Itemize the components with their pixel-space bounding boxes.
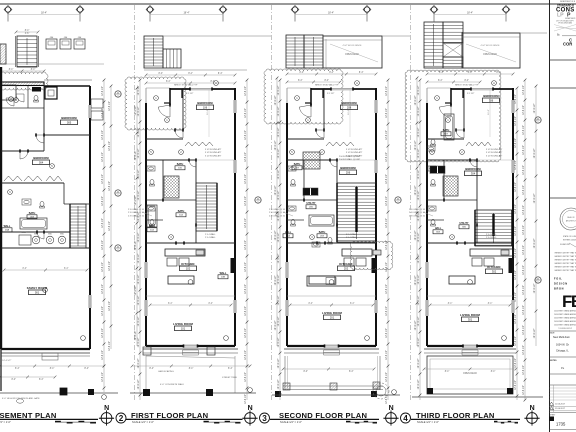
svg-text:12'-4 1/2": 12'-4 1/2" xyxy=(415,275,417,285)
svg-text:8'-4": 8'-4" xyxy=(50,368,55,370)
svg-text:12'-4 1/2": 12'-4 1/2" xyxy=(275,140,277,150)
svg-text:2 X 4 WALL: 2 X 4 WALL xyxy=(486,236,497,239)
svg-text:12'-4 1/2": 12'-4 1/2" xyxy=(102,262,104,272)
svg-text:12'-4 1/2": 12'-4 1/2" xyxy=(138,106,140,116)
svg-text:12'-4 1/2": 12'-4 1/2" xyxy=(534,148,536,158)
svg-text:OPEN DECK: OPEN DECK xyxy=(345,53,359,56)
svg-text:14'-4 1/2": 14'-4 1/2" xyxy=(2,360,11,362)
svg-text:001: 001 xyxy=(35,290,40,294)
svg-text:I HEREBY CERTIFY THAT THESE: I HEREBY CERTIFY THAT THESE xyxy=(554,255,576,258)
svg-text:12.06.2017: 12.06.2017 xyxy=(555,408,566,410)
svg-text:Pe: Pe xyxy=(561,366,565,370)
svg-text:8'-4": 8'-4" xyxy=(9,69,14,71)
svg-text:12'-4 1/2": 12'-4 1/2" xyxy=(523,145,525,155)
svg-text:12'-4 1/2": 12'-4 1/2" xyxy=(138,379,140,389)
svg-text:8'-4": 8'-4" xyxy=(445,371,450,373)
svg-text:12'-4 1/2": 12'-4 1/2" xyxy=(386,284,388,294)
svg-text:12'-4 1/2": 12'-4 1/2" xyxy=(418,337,420,347)
svg-text:12'-4 1/2": 12'-4 1/2" xyxy=(418,85,420,95)
svg-text:12'-4 1/2": 12'-4 1/2" xyxy=(418,127,420,137)
svg-text:12'-4 1/2": 12'-4 1/2" xyxy=(135,330,137,340)
svg-text:A: A xyxy=(493,81,495,85)
svg-text:12'-4 1/2": 12'-4 1/2" xyxy=(515,270,517,280)
svg-text:12'-4 1/2": 12'-4 1/2" xyxy=(102,108,104,118)
svg-text:12'-4 1/2": 12'-4 1/2" xyxy=(278,253,280,263)
svg-text:12'-4 1/2": 12'-4 1/2" xyxy=(386,152,388,162)
svg-text:8'-4": 8'-4" xyxy=(84,368,89,370)
svg-text:12'-4 1/2": 12'-4 1/2" xyxy=(275,275,277,285)
svg-text:SCALE 1/4" = 1'-0": SCALE 1/4" = 1'-0" xyxy=(0,420,11,424)
svg-text:12'-4 1/2": 12'-4 1/2" xyxy=(245,350,247,360)
svg-text:8'-4": 8'-4" xyxy=(468,72,473,74)
svg-text:FAMILY ROOM: FAMILY ROOM xyxy=(27,286,48,290)
svg-text:SCALE 1/4" = 1'-0": SCALE 1/4" = 1'-0" xyxy=(417,420,439,424)
svg-text:BEDROOM: BEDROOM xyxy=(465,167,481,171)
svg-text:12'-4 1/2": 12'-4 1/2" xyxy=(523,325,525,335)
svg-text:2 X 6 WALL @ 16: 2 X 6 WALL @ 16 xyxy=(128,211,145,214)
svg-text:THIRD FLOOR PLAN: THIRD FLOOR PLAN xyxy=(416,411,495,420)
svg-text:12'-4 1/2": 12'-4 1/2" xyxy=(415,230,417,240)
svg-text:I HEREBY CERTIFY THAT THESE: I HEREBY CERTIFY THAT THESE xyxy=(554,266,576,269)
svg-text:12'-4 1/2": 12'-4 1/2" xyxy=(418,274,420,284)
svg-text:LIVING ROOM: LIVING ROOM xyxy=(173,322,193,326)
svg-text:3 1/2 SOUND ATT: 3 1/2 SOUND ATT xyxy=(205,154,222,157)
svg-text:12'-4 1/2": 12'-4 1/2" xyxy=(515,160,517,170)
svg-text:KITCHEN: KITCHEN xyxy=(339,262,352,266)
svg-text:12'-4 1/2": 12'-4 1/2" xyxy=(418,232,420,242)
svg-text:12'-4 1/2": 12'-4 1/2" xyxy=(102,218,104,228)
svg-text:NEW 6" STUD WALL TYP: NEW 6" STUD WALL TYP xyxy=(174,84,198,87)
svg-text:12'-4 1/2": 12'-4 1/2" xyxy=(135,240,137,250)
svg-text:2 X 6 WALL @ 16: 2 X 6 WALL @ 16 xyxy=(128,208,145,211)
svg-text:12'-4 1/2": 12'-4 1/2" xyxy=(138,358,140,368)
svg-text:12'-4 1/2": 12'-4 1/2" xyxy=(515,226,517,236)
svg-text:12'-4 1/2": 12'-4 1/2" xyxy=(135,195,137,205)
svg-text:12'-4 1/2": 12'-4 1/2" xyxy=(515,358,517,368)
svg-text:12'-4 1/2": 12'-4 1/2" xyxy=(523,285,525,295)
svg-text:STREET TREE: STREET TREE xyxy=(222,377,238,379)
svg-text:201: 201 xyxy=(330,315,335,319)
svg-text:I HEREBY CERTIFY THAT THESE: I HEREBY CERTIFY THAT THESE xyxy=(554,252,576,255)
svg-text:BEDROOM: BEDROOM xyxy=(61,116,77,120)
svg-text:12'-4 1/2": 12'-4 1/2" xyxy=(386,86,388,96)
svg-text:18'-4": 18'-4" xyxy=(41,12,47,15)
svg-text:12'-4 1/2": 12'-4 1/2" xyxy=(138,337,140,347)
svg-text:A: A xyxy=(215,81,217,85)
svg-text:Chicago, IL: Chicago, IL xyxy=(556,349,569,352)
svg-text:12'-4 1/2": 12'-4 1/2" xyxy=(386,262,388,272)
svg-text:12'-4 1/2": 12'-4 1/2" xyxy=(515,116,517,126)
svg-text:12'-4 1/2": 12'-4 1/2" xyxy=(278,106,280,116)
svg-text:10B: 10B xyxy=(221,277,225,279)
svg-text:2 X 6 WALL @ 16: 2 X 6 WALL @ 16 xyxy=(128,214,145,217)
svg-text:FB: FB xyxy=(562,292,576,311)
svg-text:102: 102 xyxy=(186,266,191,270)
svg-text:3 1/2 SOUND ATT: 3 1/2 SOUND ATT xyxy=(205,148,222,151)
svg-text:8'-4": 8'-4" xyxy=(168,303,173,305)
svg-text:12'-4 1/2": 12'-4 1/2" xyxy=(523,165,525,175)
svg-text:8'-4": 8'-4" xyxy=(308,303,313,305)
svg-text:8'-4": 8'-4" xyxy=(303,371,308,373)
svg-text:BEDROOM: BEDROOM xyxy=(483,94,499,98)
svg-text:2 X 4 WALL: 2 X 4 WALL xyxy=(205,236,216,239)
svg-text:12'-4 1/2": 12'-4 1/2" xyxy=(245,218,247,228)
svg-text:GM: GM xyxy=(64,37,68,39)
svg-text:12'-4 1/2": 12'-4 1/2" xyxy=(245,240,247,250)
svg-text:8'-4": 8'-4" xyxy=(208,303,213,305)
svg-text:2 X 4 WALL: 2 X 4 WALL xyxy=(346,236,357,239)
svg-text:8'-4": 8'-4" xyxy=(31,69,36,71)
svg-text:12'-4 1/2": 12'-4 1/2" xyxy=(418,295,420,305)
svg-text:12'-4 1/2": 12'-4 1/2" xyxy=(418,316,420,326)
svg-text:12'-4 1/2": 12'-4 1/2" xyxy=(278,169,280,179)
svg-text:3 1/2 SOUND ATT: 3 1/2 SOUND ATT xyxy=(486,154,503,157)
svg-text:12'-4 1/2": 12'-4 1/2" xyxy=(278,211,280,221)
svg-text:12'-4 1/2": 12'-4 1/2" xyxy=(386,108,388,118)
svg-text:8'-4": 8'-4" xyxy=(488,303,493,305)
svg-text:I HEREBY CERTIFY THAT THESE: I HEREBY CERTIFY THAT THESE xyxy=(554,262,576,265)
svg-text:12'-4 1/2": 12'-4 1/2" xyxy=(386,394,388,404)
svg-text:12'-4 1/2": 12'-4 1/2" xyxy=(418,211,420,221)
svg-text:1735: 1735 xyxy=(556,422,566,427)
svg-text:8'-4": 8'-4" xyxy=(159,73,164,75)
svg-text:12'-4 1/2": 12'-4 1/2" xyxy=(534,193,536,203)
svg-text:12'-4 1/2": 12'-4 1/2" xyxy=(275,185,277,195)
svg-text:I HEREBY CERTIFY THAT THESE: I HEREBY CERTIFY THAT THESE xyxy=(554,259,576,262)
svg-text:8'-4": 8'-4" xyxy=(298,80,303,82)
svg-text:12'-4 1/2": 12'-4 1/2" xyxy=(418,106,420,116)
svg-text:STATE OF ILLINOIS: STATE OF ILLINOIS xyxy=(563,235,576,238)
svg-text:8'-4": 8'-4" xyxy=(439,72,444,74)
svg-text:12'-4 1/2": 12'-4 1/2" xyxy=(138,127,140,137)
svg-text:12'-4 1/2": 12'-4 1/2" xyxy=(245,152,247,162)
svg-text:12'-4 1/2": 12'-4 1/2" xyxy=(415,95,417,105)
svg-text:BEDROOM: BEDROOM xyxy=(341,101,357,105)
svg-text:3 1/2 SOUND ATT: 3 1/2 SOUND ATT xyxy=(346,151,363,154)
svg-text:8'-4": 8'-4" xyxy=(25,30,30,32)
svg-text:8'-4": 8'-4" xyxy=(350,303,355,305)
svg-text:SCALE 1/4" = 1'-0": SCALE 1/4" = 1'-0" xyxy=(132,420,154,424)
svg-text:302: 302 xyxy=(492,269,497,273)
svg-text:12'-4 1/2": 12'-4 1/2" xyxy=(386,328,388,338)
svg-text:12'-4 1/2": 12'-4 1/2" xyxy=(275,230,277,240)
svg-text:12'-4 1/2": 12'-4 1/2" xyxy=(515,336,517,346)
svg-text:12'-4 1/2": 12'-4 1/2" xyxy=(278,337,280,347)
svg-text:12'-4 1/2": 12'-4 1/2" xyxy=(138,190,140,200)
svg-text:18'-4": 18'-4" xyxy=(183,12,189,15)
svg-text:12'-4 1/2": 12'-4 1/2" xyxy=(135,285,137,295)
svg-text:12'-4 1/2": 12'-4 1/2" xyxy=(245,86,247,96)
svg-text:12'-4 1/2": 12'-4 1/2" xyxy=(135,150,137,160)
svg-text:12'-4 1/2": 12'-4 1/2" xyxy=(523,305,525,315)
svg-text:SIGNATURE: SIGNATURE xyxy=(560,243,571,246)
svg-text:12'-4 1/2": 12'-4 1/2" xyxy=(523,85,525,95)
svg-text:12'-4 1/2": 12'-4 1/2" xyxy=(109,181,111,191)
svg-text:8'-4": 8'-4" xyxy=(218,73,223,75)
svg-text:3 1/2 SOUND ATT: 3 1/2 SOUND ATT xyxy=(346,148,363,151)
svg-text:12'-4 1/2": 12'-4 1/2" xyxy=(138,274,140,284)
svg-text:I HEREBY CERTIFY THAT THESE: I HEREBY CERTIFY THAT THESE xyxy=(554,269,576,272)
svg-text:12'-4 1/2": 12'-4 1/2" xyxy=(138,85,140,95)
svg-text:6'-0" HIGH WOOD FENCE AND GATE: 6'-0" HIGH WOOD FENCE AND GATE xyxy=(2,397,40,400)
svg-text:8'-4": 8'-4" xyxy=(324,80,329,82)
svg-text:12'-4 1/2": 12'-4 1/2" xyxy=(278,190,280,200)
svg-text:LIVING ROOM: LIVING ROOM xyxy=(322,311,342,315)
svg-text:12'-4 1/2": 12'-4 1/2" xyxy=(523,265,525,275)
svg-text:12'-4 1/2": 12'-4 1/2" xyxy=(386,306,388,316)
svg-text:4: 4 xyxy=(403,414,408,423)
svg-text:LP: LP xyxy=(557,13,564,19)
svg-text:12'-4 1/2": 12'-4 1/2" xyxy=(102,196,104,206)
svg-text:SHEET: SHEET xyxy=(550,415,555,417)
svg-text:12'-4 1/2": 12'-4 1/2" xyxy=(515,94,517,104)
svg-text:12'-4 1/2": 12'-4 1/2" xyxy=(245,394,247,404)
svg-text:12'-4 1/2": 12'-4 1/2" xyxy=(515,314,517,324)
svg-text:12'-4 1/2": 12'-4 1/2" xyxy=(515,292,517,302)
svg-text:4' HT WOOD FENCE: 4' HT WOOD FENCE xyxy=(480,45,500,47)
svg-text:12'-4 1/2": 12'-4 1/2" xyxy=(386,174,388,184)
svg-text:BEDROOM: BEDROOM xyxy=(340,166,356,170)
svg-text:306: 306 xyxy=(489,98,494,102)
svg-text:FIRST FLOOR PLAN: FIRST FLOOR PLAN xyxy=(131,411,208,420)
svg-text:12'-4 1/2": 12'-4 1/2" xyxy=(515,380,517,390)
svg-text:A: A xyxy=(356,81,358,85)
svg-text:LIVING ROOM: LIVING ROOM xyxy=(460,313,480,317)
svg-text:202: 202 xyxy=(344,266,349,270)
svg-text:12'-4 1/2": 12'-4 1/2" xyxy=(138,295,140,305)
svg-text:304: 304 xyxy=(471,171,476,175)
svg-text:12'-4 1/2": 12'-4 1/2" xyxy=(415,185,417,195)
svg-text:2054 WEST GRAND AVENUE: 2054 WEST GRAND AVENUE xyxy=(554,313,576,316)
svg-text:P: P xyxy=(567,13,571,19)
svg-text:KITCHEN: KITCHEN xyxy=(181,262,194,266)
svg-text:3'-6": 3'-6" xyxy=(25,33,30,35)
svg-text:12'-4 1/2": 12'-4 1/2" xyxy=(102,372,104,382)
svg-text:12'-4 1/2": 12'-4 1/2" xyxy=(515,204,517,214)
svg-text:12'-4 1/2": 12'-4 1/2" xyxy=(278,295,280,305)
svg-text:12'-4 1/2": 12'-4 1/2" xyxy=(245,372,247,382)
svg-text:8'-4": 8'-4" xyxy=(448,303,453,305)
svg-text:12'-4 1/2": 12'-4 1/2" xyxy=(523,245,525,255)
svg-text:W/D: W/D xyxy=(60,234,64,236)
svg-text:12'-4 1/2": 12'-4 1/2" xyxy=(523,185,525,195)
svg-text:GM: GM xyxy=(50,37,54,39)
svg-text:8'-4": 8'-4" xyxy=(64,268,69,270)
svg-text:SECOND FLOOR PLAN: SECOND FLOOR PLAN xyxy=(279,411,367,420)
svg-text:12'-4 1/2": 12'-4 1/2" xyxy=(245,284,247,294)
svg-text:12'-4 1/2": 12'-4 1/2" xyxy=(109,141,111,151)
svg-text:12'-4 1/2": 12'-4 1/2" xyxy=(278,274,280,284)
svg-text:12'-4 1/2": 12'-4 1/2" xyxy=(386,130,388,140)
svg-text:SUMP: SUMP xyxy=(21,232,27,234)
svg-text:4' HT WOOD FENCE: 4' HT WOOD FENCE xyxy=(342,45,362,47)
svg-text:12'-4 1/2": 12'-4 1/2" xyxy=(523,105,525,115)
svg-text:11'-6": 11'-6" xyxy=(488,109,490,115)
svg-text:12'-4 1/2": 12'-4 1/2" xyxy=(418,169,420,179)
svg-text:OPEN DECK: OPEN DECK xyxy=(463,372,477,375)
svg-text:1634 W. Ch: 1634 W. Ch xyxy=(556,343,570,346)
svg-text:8'-4": 8'-4" xyxy=(349,371,354,373)
svg-text:12'-4 1/2": 12'-4 1/2" xyxy=(109,221,111,231)
svg-text:12'-4 1/2": 12'-4 1/2" xyxy=(523,365,525,375)
svg-text:8'-4": 8'-4" xyxy=(39,379,44,381)
svg-text:12'-4 1/2": 12'-4 1/2" xyxy=(278,379,280,389)
svg-text:8'-4": 8'-4" xyxy=(22,268,27,270)
svg-text:3: 3 xyxy=(262,414,267,423)
svg-text:12'-4 1/2": 12'-4 1/2" xyxy=(138,253,140,263)
svg-text:8'-4": 8'-4" xyxy=(491,371,496,373)
svg-text:12'-4 1/2": 12'-4 1/2" xyxy=(102,350,104,360)
svg-text:12'-4 1/2": 12'-4 1/2" xyxy=(109,341,111,351)
svg-text:004: 004 xyxy=(39,160,44,164)
svg-text:12'-4 1/2": 12'-4 1/2" xyxy=(102,306,104,316)
svg-text:12'-4 1/2": 12'-4 1/2" xyxy=(386,240,388,250)
svg-text:2 X 4 WALL: 2 X 4 WALL xyxy=(486,233,497,236)
svg-text:8'-4": 8'-4" xyxy=(228,368,233,370)
svg-text:12'-4 1/2": 12'-4 1/2" xyxy=(278,316,280,326)
svg-text:KITCHEN: KITCHEN xyxy=(487,265,500,269)
svg-text:NEW 6" STUD WALL TYP: NEW 6" STUD WALL TYP xyxy=(315,84,339,87)
svg-text:2054 WEST GRAND AVENUE: 2054 WEST GRAND AVENUE xyxy=(554,317,576,320)
svg-text:3 1/2 SOUND ATT: 3 1/2 SOUND ATT xyxy=(486,148,503,151)
svg-text:12'-4 1/2": 12'-4 1/2" xyxy=(102,86,104,96)
svg-text:12'-4 1/2": 12'-4 1/2" xyxy=(534,328,536,338)
svg-text:005: 005 xyxy=(67,120,72,124)
svg-text:12.06.2017: 12.06.2017 xyxy=(555,404,566,406)
svg-text:12'-4 1/2": 12'-4 1/2" xyxy=(102,328,104,338)
svg-text:12'-4 1/2": 12'-4 1/2" xyxy=(534,238,536,248)
svg-text:12'-4 1/2": 12'-4 1/2" xyxy=(534,283,536,293)
svg-text:2054 WEST GRAND AVENUE: 2054 WEST GRAND AVENUE xyxy=(554,324,576,327)
svg-text:12'-4 1/2": 12'-4 1/2" xyxy=(515,138,517,148)
svg-text:12'-4 1/2": 12'-4 1/2" xyxy=(138,148,140,158)
svg-text:12'-4 1/2": 12'-4 1/2" xyxy=(109,301,111,311)
svg-text:12'-4 1/2": 12'-4 1/2" xyxy=(138,316,140,326)
svg-text:12'-4 1/2": 12'-4 1/2" xyxy=(386,350,388,360)
svg-text:2 X 6 WALL @ 16: 2 X 6 WALL @ 16 xyxy=(409,208,426,211)
svg-text:8'-4": 8'-4" xyxy=(11,379,16,381)
svg-text:12'-4 1/2": 12'-4 1/2" xyxy=(245,306,247,316)
svg-text:12'-4 1/2": 12'-4 1/2" xyxy=(109,261,111,271)
svg-text:8'-4": 8'-4" xyxy=(166,81,171,83)
svg-text:3 1/2 SOUND ATT: 3 1/2 SOUND ATT xyxy=(205,151,222,154)
svg-text:12'-4 1/2": 12'-4 1/2" xyxy=(515,182,517,192)
svg-text:12'-4 1/2": 12'-4 1/2" xyxy=(523,225,525,235)
svg-text:12'-4 1/2": 12'-4 1/2" xyxy=(523,385,525,395)
svg-text:8'-4": 8'-4" xyxy=(329,72,334,74)
svg-text:12'-4 1/2": 12'-4 1/2" xyxy=(415,320,417,330)
svg-text:12'-4 1/2": 12'-4 1/2" xyxy=(245,108,247,118)
svg-text:12'-4 1/2": 12'-4 1/2" xyxy=(109,101,111,111)
svg-text:GM: GM xyxy=(78,37,82,39)
svg-text:12'-4 1/2": 12'-4 1/2" xyxy=(523,345,525,355)
svg-text:2 X 4 WALL: 2 X 4 WALL xyxy=(205,233,216,236)
svg-text:8'-4": 8'-4" xyxy=(189,368,194,370)
svg-text:12'-4 1/2": 12'-4 1/2" xyxy=(418,148,420,158)
svg-text:12'-4 1/2": 12'-4 1/2" xyxy=(418,379,420,389)
svg-text:12'-4 1/2": 12'-4 1/2" xyxy=(415,140,417,150)
svg-text:12'-4 1/2": 12'-4 1/2" xyxy=(102,130,104,140)
svg-text:12'-4 1/2": 12'-4 1/2" xyxy=(386,196,388,206)
svg-text:12'-4 1/2": 12'-4 1/2" xyxy=(245,262,247,272)
svg-text:BEDROOM: BEDROOM xyxy=(197,101,213,105)
svg-text:12'-4 1/2": 12'-4 1/2" xyxy=(523,125,525,135)
svg-text:3 1/2 SOUND ATT: 3 1/2 SOUND ATT xyxy=(486,151,503,154)
svg-text:SCALE 1/4" = 1'-0": SCALE 1/4" = 1'-0" xyxy=(280,420,302,424)
svg-text:18'-4": 18'-4" xyxy=(467,12,473,15)
svg-text:12'-4 1/2": 12'-4 1/2" xyxy=(386,218,388,228)
svg-text:2 X 4 WALL: 2 X 4 WALL xyxy=(346,233,357,236)
svg-text:8'-4": 8'-4" xyxy=(464,80,469,82)
svg-text:12'-4 1/2": 12'-4 1/2" xyxy=(523,205,525,215)
svg-text:NEW 6" STUD WALL TYP: NEW 6" STUD WALL TYP xyxy=(455,84,479,87)
svg-text:12'-4 1/2": 12'-4 1/2" xyxy=(418,190,420,200)
svg-text:12'-4 1/2": 12'-4 1/2" xyxy=(245,130,247,140)
svg-text:8'-4": 8'-4" xyxy=(15,368,20,370)
svg-text:D E S I G N: D E S I G N xyxy=(554,283,567,286)
svg-text:8'-4": 8'-4" xyxy=(359,72,364,74)
svg-text:2 HOUR WALL @ UNIT: 2 HOUR WALL @ UNIT xyxy=(339,158,361,161)
svg-text:BEDROOM: BEDROOM xyxy=(33,156,49,160)
svg-text:2 HOUR WALL @ UNIT: 2 HOUR WALL @ UNIT xyxy=(339,155,361,158)
svg-text:00A: 00A xyxy=(5,229,9,232)
svg-text:COR: COR xyxy=(563,42,572,47)
svg-text:12'-4 1/2": 12'-4 1/2" xyxy=(245,328,247,338)
svg-text:2054 WEST GRAND AVENUE: 2054 WEST GRAND AVENUE xyxy=(554,310,576,313)
svg-text:8'-4": 8'-4" xyxy=(188,73,193,75)
svg-text:12'-4 1/2": 12'-4 1/2" xyxy=(245,196,247,206)
svg-text:12'-4 1/2": 12'-4 1/2" xyxy=(275,320,277,330)
svg-text:12'-4 1/2": 12'-4 1/2" xyxy=(102,284,104,294)
svg-text:12'-4 1/2": 12'-4 1/2" xyxy=(418,253,420,263)
svg-text:206: 206 xyxy=(346,170,351,174)
svg-text:NOTES: NOTES xyxy=(550,360,557,362)
svg-text:12'-4 1/2": 12'-4 1/2" xyxy=(386,372,388,382)
svg-text:301: 301 xyxy=(468,317,473,321)
svg-text:5'-2 1/2": 5'-2 1/2" xyxy=(467,93,475,95)
svg-text:LANDSCAPING: LANDSCAPING xyxy=(158,370,174,373)
svg-text:18'-4": 18'-4" xyxy=(328,12,334,15)
svg-text:New Multi-Fam: New Multi-Fam xyxy=(553,336,570,339)
svg-text:12'-4 1/2": 12'-4 1/2" xyxy=(278,358,280,368)
svg-text:EXPIRES 11/30/18: EXPIRES 11/30/18 xyxy=(563,240,576,242)
svg-text:12'-4 1/2": 12'-4 1/2" xyxy=(515,248,517,258)
svg-text:101: 101 xyxy=(181,326,186,330)
svg-text:12'-4 1/2": 12'-4 1/2" xyxy=(245,174,247,184)
svg-text:12'-4 1/2": 12'-4 1/2" xyxy=(278,232,280,242)
svg-text:12'-4 1/2": 12'-4 1/2" xyxy=(278,85,280,95)
svg-text:12'-4 1/2": 12'-4 1/2" xyxy=(278,127,280,137)
svg-text:12'-4 1/2": 12'-4 1/2" xyxy=(138,169,140,179)
svg-text:B R O N: B R O N xyxy=(554,288,564,291)
svg-text:8'-4": 8'-4" xyxy=(300,72,305,74)
svg-text:4'-0" CONCRETE WALK: 4'-0" CONCRETE WALK xyxy=(160,383,185,386)
svg-text:W/D: W/D xyxy=(48,234,52,236)
svg-text:12'-4 1/2": 12'-4 1/2" xyxy=(138,232,140,242)
svg-text:2: 2 xyxy=(119,414,124,423)
svg-text:12'-4 1/2": 12'-4 1/2" xyxy=(418,358,420,368)
svg-text:5'-2 1/2": 5'-2 1/2" xyxy=(327,93,335,95)
svg-text:ARCHITECT: ARCHITECT xyxy=(566,220,576,223)
svg-text:2 X 6 WALL @ 16: 2 X 6 WALL @ 16 xyxy=(269,208,286,211)
svg-text:5'-2 1/2": 5'-2 1/2" xyxy=(186,93,194,95)
svg-text:8'-4": 8'-4" xyxy=(149,368,154,370)
svg-text:12'-4 1/2": 12'-4 1/2" xyxy=(102,152,104,162)
svg-text:12'-4 1/2": 12'-4 1/2" xyxy=(275,95,277,105)
svg-text:12'-4 1/2": 12'-4 1/2" xyxy=(138,211,140,221)
svg-text:12'-4 1/2": 12'-4 1/2" xyxy=(534,103,536,113)
svg-text:208: 208 xyxy=(347,105,352,109)
